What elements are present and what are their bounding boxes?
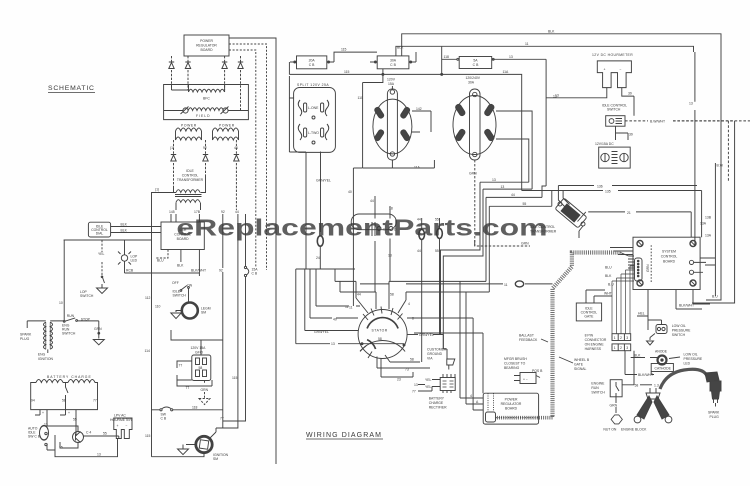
svg-text:3: 3 (626, 346, 628, 350)
wire board right to x266 down (229, 44, 267, 270)
coil battery charge (31, 380, 98, 410)
svg-text:11A: 11A (414, 166, 421, 170)
svg-text:23: 23 (397, 378, 401, 382)
svg-text:LOW OIL: LOW OIL (672, 324, 686, 328)
svg-text:BATTERY CHARGE: BATTERY CHARGE (47, 375, 92, 379)
svg-text:CHARGE: CHARGE (429, 401, 444, 405)
svg-text:39: 39 (629, 133, 633, 137)
svg-text:REGULATOR: REGULATOR (501, 402, 522, 406)
svg-text:58: 58 (410, 358, 414, 362)
svg-text:GRN/YEL: GRN/YEL (314, 330, 329, 334)
svg-text:MFGR BRUSH: MFGR BRUSH (504, 357, 527, 361)
svg-text:REGULATOR: REGULATOR (196, 44, 217, 48)
svg-text:44: 44 (417, 249, 421, 253)
svg-text:YEL: YEL (425, 378, 432, 382)
svg-text:44: 44 (370, 199, 374, 203)
svg-text:13: 13 (331, 342, 335, 346)
svg-text:4: 4 (470, 394, 472, 398)
svg-text:77: 77 (220, 417, 224, 421)
svg-text:BOARD: BOARD (663, 260, 676, 264)
svg-text:+: + (117, 424, 119, 428)
svg-text:PRESSURE: PRESSURE (684, 357, 703, 361)
svg-text:39: 39 (628, 92, 632, 96)
svg-text:B.U: B.U (608, 283, 614, 287)
wire 13 / 55 drops (44, 410, 77, 436)
svg-text:13A: 13A (705, 234, 712, 238)
wire B.W/WHT dashed (625, 120, 750, 124)
svg-text:1: 1 (614, 346, 616, 350)
bullet connector left (317, 236, 323, 252)
svg-text:PLUG: PLUG (20, 337, 30, 341)
diode D1 (169, 56, 174, 90)
wire 13 bottom run (47, 435, 118, 457)
svg-text:GATE: GATE (574, 363, 584, 367)
svg-text:GRN: GRN (469, 172, 477, 176)
label 115 right vertical (232, 376, 238, 380)
svg-text:ENGINE: ENGINE (591, 382, 605, 386)
wire 44 stack line3 (486, 186, 546, 281)
wires gfci left 77 (177, 361, 192, 390)
wire 13 stack line2 (443, 185, 532, 349)
wire GRN nut (610, 397, 618, 413)
wire 39 below switch (616, 126, 633, 140)
svg-text:C B: C B (473, 63, 479, 67)
wire BLK to led (631, 354, 658, 358)
receptacle twist-lock 120V 15A (373, 78, 412, 161)
svg-text:BATTERY: BATTERY (429, 397, 445, 401)
svg-text:SWITCH: SWITCH (80, 294, 94, 298)
coil FIELD with terminals (164, 107, 249, 119)
gfci label (191, 346, 207, 355)
svg-text:SWITCH: SWITCH (607, 108, 621, 112)
svg-text:WHEEL B: WHEEL B (574, 358, 590, 362)
svg-text:BLK/WHT: BLK/WHT (191, 269, 206, 273)
svg-text:+ −: + − (523, 378, 528, 382)
switch idle control (606, 116, 625, 127)
svg-text:SCHEMATIC: SCHEMATIC (48, 85, 95, 92)
svg-text:C B: C B (161, 417, 167, 421)
svg-text:BOARD: BOARD (200, 48, 213, 52)
wire top 11 long (396, 42, 694, 56)
svg-text:CONTROL: CONTROL (661, 255, 678, 259)
wire BLK dial to board (111, 223, 161, 227)
breaker 15A CB (223, 214, 258, 421)
stator wires up (356, 281, 406, 313)
svg-text:B.W/WHT: B.W/WHT (650, 120, 665, 124)
wire 115 long (289, 70, 521, 191)
svg-text:BLU: BLU (605, 266, 612, 270)
svg-text:118: 118 (444, 55, 450, 59)
wire 13 stack line1 (441, 178, 529, 335)
breaker 20A CB (290, 56, 334, 69)
svg-text:11A: 11A (503, 70, 510, 74)
transistor C4 (47, 422, 91, 448)
svg-text:SWITCH: SWITCH (672, 333, 686, 337)
wire 58 engine run (622, 351, 638, 388)
title SCHEMATIC (48, 85, 95, 93)
svg-text:120/240V: 120/240V (466, 76, 481, 80)
svg-text:GROUND: GROUND (427, 352, 443, 356)
wire sw cb left to vertical (152, 409, 161, 411)
svg-text:120V 15A: 120V 15A (191, 346, 207, 350)
label BLK at 30A (397, 46, 404, 50)
wire battery box down legs (35, 410, 66, 415)
svg-text:CONTROL: CONTROL (182, 174, 199, 178)
svg-text:POWER: POWER (505, 398, 518, 402)
svg-text:GRN: GRN (521, 242, 529, 246)
hourmeter LPV AC label (110, 414, 132, 423)
diode D3 (222, 56, 227, 90)
idle control transformer diag label (530, 225, 557, 234)
label 114 upper left vertical (145, 296, 161, 353)
svg-text:135: 135 (605, 190, 611, 194)
low oil pressure switch (647, 316, 692, 345)
diode D5 (171, 140, 176, 186)
wire from board right to divider top (229, 38, 276, 464)
svg-text:44: 44 (511, 193, 515, 197)
svg-text:BFC: BFC (203, 97, 210, 101)
svg-text:CONNECTOR: CONNECTOR (585, 338, 607, 342)
svg-text:77: 77 (186, 386, 190, 390)
wire 39 hourmeter right prong (622, 88, 634, 116)
svg-text:13: 13 (97, 453, 101, 457)
label idle control transformer (177, 169, 204, 182)
hourmeter 12V DC label (592, 53, 633, 57)
svg-text:GRN: GRN (610, 404, 618, 408)
svg-text:40: 40 (333, 318, 337, 322)
svg-text:C 4: C 4 (86, 431, 91, 435)
svg-text:HEL: HEL (638, 312, 645, 316)
label battery charge (47, 375, 92, 379)
nested corner wires to stator (306, 268, 355, 270)
svg-text:CLOSEST TO: CLOSEST TO (504, 362, 526, 366)
customer ground label (427, 348, 447, 361)
diode D4 (238, 56, 243, 111)
svg-text:LED: LED (131, 259, 138, 263)
wire 55 to hourmeter (83, 432, 119, 439)
svg-text:POWER: POWER (219, 124, 235, 128)
svg-text:SYSTEM: SYSTEM (662, 250, 676, 254)
diode D2 (185, 56, 190, 90)
svg-text:SPLIT 120V 25A: SPLIT 120V 25A (297, 83, 329, 87)
wires rectifier to power reg board (460, 392, 483, 404)
wire ignition top right (210, 421, 223, 439)
svg-text:SWITCH: SWITCH (173, 294, 187, 298)
connector strip 2 (612, 344, 631, 351)
wire 10 from top to run switch (59, 240, 64, 320)
svg-text:110: 110 (358, 96, 364, 100)
svg-text:13B: 13B (705, 216, 712, 220)
receptacle DC (599, 147, 631, 168)
left frame wires of wiring side (296, 160, 306, 344)
wire 11 long bullet (360, 281, 553, 287)
node labels under power coils (170, 146, 238, 150)
svg-text:13: 13 (689, 102, 693, 106)
spark plug (705, 372, 721, 419)
svg-text:C B: C B (309, 63, 315, 67)
wire GRN/YEL right of stator (407, 333, 443, 349)
svg-text:SM: SM (213, 457, 218, 461)
wire 142 (412, 107, 431, 132)
svg-text:114: 114 (145, 349, 151, 353)
svg-text:8: 8 (412, 317, 414, 321)
label auto idle cb (28, 427, 41, 439)
wire long left vertical (64, 239, 152, 241)
wire 92 vertical (222, 214, 224, 268)
wire 110 from 30A down (358, 69, 383, 168)
svg-text:58: 58 (199, 366, 203, 370)
svg-text:RECTIFIER: RECTIFIER (429, 406, 447, 410)
svg-text:24: 24 (316, 256, 320, 260)
svg-text:44: 44 (235, 210, 239, 214)
svg-text:YEL: YEL (425, 385, 432, 389)
wire ignition bottom loop (152, 453, 205, 457)
wire right of 240 recept (496, 111, 532, 189)
svg-text:12V/15A DC: 12V/15A DC (595, 142, 614, 146)
svg-text:LPV AC: LPV AC (114, 414, 126, 418)
engine run switch (wiring) (591, 380, 622, 397)
svg-text:92: 92 (203, 146, 207, 150)
svg-text:145: 145 (169, 210, 175, 214)
connector oval auto idle (40, 426, 49, 446)
svg-text:58: 58 (390, 293, 394, 297)
svg-text:ON ENGINE: ON ENGINE (585, 343, 605, 347)
svg-text:CUSTOMER: CUSTOMER (427, 348, 447, 352)
engine mount bracket (634, 388, 672, 423)
wire 92 lower (222, 272, 224, 421)
spark plug left (20, 321, 32, 341)
label wheel b gate signal (574, 358, 590, 371)
brush component (514, 369, 543, 384)
svg-text:58: 58 (62, 399, 66, 403)
node labels 145 17B 92 44 (169, 210, 239, 214)
svg-text:eReplacementParts.com: eReplacementParts.com (176, 215, 547, 241)
wire gfci top loop (171, 330, 223, 355)
coil BFC (189, 85, 225, 101)
svg-text:55: 55 (523, 202, 527, 206)
wire left drop from D1 to field loop (172, 89, 189, 91)
bullet connector right (437, 229, 443, 239)
svg-text:GRN: GRN (201, 388, 209, 392)
svg-text:73: 73 (405, 368, 409, 372)
wire BLK/WHT below (625, 351, 654, 377)
svg-text:1: 1 (614, 336, 616, 340)
svg-text:BLK: BLK (605, 274, 612, 278)
svg-text:POWER: POWER (181, 124, 197, 128)
svg-text:110: 110 (155, 305, 161, 309)
svg-text:BLK: BLK (634, 354, 641, 358)
svg-text:GATE: GATE (584, 315, 594, 319)
svg-text:LED: LED (684, 362, 691, 366)
svg-text:118: 118 (192, 406, 198, 410)
svg-text:RUN: RUN (67, 314, 75, 318)
svg-text:58: 58 (378, 337, 382, 341)
svg-text:FIELD: FIELD (196, 114, 211, 118)
system control board (633, 237, 706, 289)
wire 92 label mid (219, 269, 223, 273)
svg-text:10: 10 (59, 301, 63, 305)
svg-text:44: 44 (357, 293, 361, 297)
svg-text:55: 55 (435, 249, 439, 253)
svg-text:77: 77 (179, 364, 183, 368)
diode D7 (234, 140, 239, 210)
title WIRING DIAGRAM (306, 432, 383, 439)
connector strip 1 (612, 334, 631, 341)
svg-text:BALLAST: BALLAST (519, 334, 534, 338)
svg-text:13: 13 (555, 94, 559, 98)
svg-text:PRESSURE: PRESSURE (672, 329, 691, 333)
wires below mid connectors (320, 239, 439, 270)
wire GRN top right from 240 recept (474, 240, 476, 246)
svg-text:2: 2 (620, 336, 622, 340)
svg-text:STATOR: STATOR (372, 329, 388, 333)
label LOP SWITCH (80, 290, 94, 298)
wires from gate up (586, 290, 612, 303)
wire top BLK long (402, 30, 721, 301)
svg-text:CATHODE: CATHODE (655, 367, 672, 371)
breaker 30A CB (370, 52, 416, 69)
ground lug (443, 349, 455, 370)
svg-text:18: 18 (389, 207, 393, 211)
svg-text:NUT ON: NUT ON (603, 428, 616, 432)
svg-text:L-TWO: L-TWO (308, 131, 319, 135)
pins dots left of connector (628, 259, 634, 268)
mid connector oval component (351, 214, 397, 236)
wire bundle system board to connector (612, 266, 634, 334)
svg-text:11: 11 (349, 306, 353, 310)
coil POWER winding 2 (213, 124, 239, 141)
svg-text:SW C B: SW C B (28, 435, 41, 439)
LED LOP (118, 240, 138, 273)
svg-text:SWITCH: SWITCH (591, 391, 605, 395)
wires above mid connectors (375, 196, 440, 230)
transformer T1 (166, 176, 206, 210)
wire 13A vertical (700, 163, 715, 296)
idle control dial (88, 222, 110, 237)
wire left edge (288, 62, 290, 74)
ground GRN eng run (93, 321, 104, 345)
stator wire labels top (345, 293, 414, 321)
wire 13 vertical mid (549, 95, 557, 99)
power regulator board (wiring side) (483, 393, 538, 424)
wire 44 vertical (216, 214, 238, 428)
svg-text:OFF: OFF (172, 281, 179, 285)
receptacle split duplex (294, 88, 336, 153)
svg-text:77: 77 (412, 390, 416, 394)
transformer ENG IGNITION (27, 321, 64, 361)
svg-text:1.3: 1.3 (654, 384, 659, 388)
svg-text:115: 115 (145, 434, 151, 438)
wire (1) from transformer to left (152, 188, 167, 457)
svg-text:−: − (620, 68, 622, 72)
svg-text:IDLE: IDLE (186, 169, 194, 173)
ignition SM motor (196, 436, 229, 461)
wire switch to legm (188, 288, 190, 302)
svg-text:15: 15 (59, 446, 63, 450)
svg-text:4: 4 (408, 302, 410, 306)
svg-text:GFCI: GFCI (195, 351, 203, 355)
wire grn/yel below (316, 152, 331, 233)
svg-text:RUN: RUN (591, 386, 599, 390)
watermark (176, 215, 547, 241)
wires into connector from left (610, 248, 633, 255)
nut on engine block (603, 415, 647, 432)
LEGM SM motor (182, 303, 211, 319)
labels 13 77 left of rectifier (412, 383, 418, 394)
svg-text:136: 136 (597, 185, 603, 189)
svg-text:LOW OIL: LOW OIL (684, 353, 698, 357)
wires right verticals (689, 52, 695, 246)
svg-text:21: 21 (627, 211, 631, 215)
svg-text:20A: 20A (309, 59, 316, 63)
svg-text:112: 112 (145, 296, 151, 300)
svg-text:WHT: WHT (604, 292, 612, 296)
svg-text:+: + (42, 411, 44, 415)
svg-text:115: 115 (341, 48, 347, 52)
receptacle twist-lock 120/240V 30A (453, 76, 496, 160)
breaker SW CB left (160, 407, 173, 421)
spark plug cable thick (660, 369, 707, 389)
svg-text:55: 55 (73, 418, 77, 422)
ground ignition (178, 445, 196, 455)
battery charge rectifier component (440, 374, 455, 393)
bullet connector mid (419, 230, 425, 240)
svg-text:120V: 120V (387, 78, 396, 82)
wire grn below 240 recept (469, 160, 530, 246)
hourmeter LPV AC box (114, 418, 132, 439)
svg-text:SPARK: SPARK (20, 333, 32, 337)
svg-text:SPARK: SPARK (708, 411, 720, 415)
wire 77 down from gfci (177, 380, 212, 386)
wire 21 long (588, 211, 691, 237)
svg-text:8 PIN: 8 PIN (585, 334, 594, 338)
svg-text:40: 40 (348, 190, 352, 194)
svg-text:BLK: BLK (121, 229, 128, 233)
svg-text:BLK: BLK (397, 46, 404, 50)
switch LOP (101, 276, 104, 288)
switch ENG RUN (62, 314, 99, 336)
wire BLK dial to board 2 (111, 229, 161, 233)
svg-text:2: 2 (620, 346, 622, 350)
svg-text:SM: SM (201, 311, 206, 315)
svg-text:FEEDBACK: FEEDBACK (519, 338, 538, 342)
svg-text:YEL: YEL (98, 252, 105, 256)
LED low oil (655, 350, 703, 366)
svg-text:GRN: GRN (94, 327, 102, 331)
wire bfc outer loop (164, 85, 249, 120)
labels YEL near rectifier (425, 378, 432, 389)
svg-text:+: + (68, 411, 70, 415)
label 115 left vertical (145, 434, 151, 438)
svg-text:77: 77 (93, 399, 97, 403)
svg-text:55: 55 (103, 432, 107, 436)
wire 17B down to board (198, 214, 200, 222)
label mfgr brush (504, 357, 527, 370)
ground lop switch (97, 284, 108, 294)
svg-text:94: 94 (31, 399, 35, 403)
coil POWER winding 1 (176, 124, 202, 141)
wires below stator (377, 355, 420, 368)
svg-text:15A: 15A (388, 82, 395, 86)
breaker 5A CB (442, 47, 546, 186)
svg-text:92: 92 (221, 210, 225, 214)
wire 13 left of stator (296, 342, 405, 346)
wire board right to x255 down (229, 50, 256, 268)
svg-text:13: 13 (492, 178, 496, 182)
svg-text:3: 3 (626, 336, 628, 340)
label ballast feedback (519, 334, 538, 343)
switch idle OFF ON (172, 281, 193, 298)
